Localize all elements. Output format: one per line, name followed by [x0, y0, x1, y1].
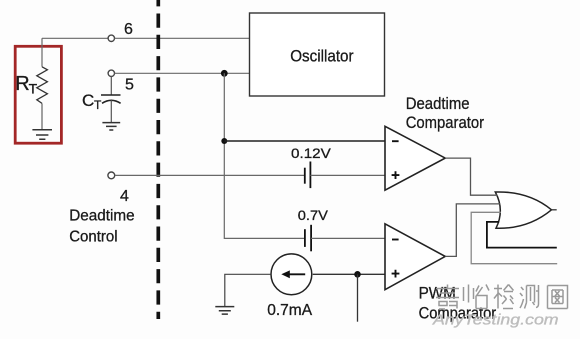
wire current source to PWM + input: [313, 273, 385, 275]
svg-text:0.12V: 0.12V: [291, 145, 332, 161]
svg-text:T: T: [29, 81, 38, 97]
current source arrow: [289, 273, 306, 275]
node junction at deadtime minus row: [221, 138, 227, 144]
wire PWM output to OR input 2: [445, 204, 500, 257]
highlight box (red) around RT: [15, 46, 61, 143]
ground under CT: [102, 123, 120, 130]
svg-text:Deadtime: Deadtime: [69, 208, 134, 225]
watermark (gray pseudo-characters): [436, 285, 568, 310]
plus sign: [392, 270, 400, 278]
op-amp deadtime comparator: [385, 126, 445, 190]
wire CT to ground: [110, 100, 112, 122]
terminal 5: [108, 70, 114, 76]
svg-text:0.7V: 0.7V: [298, 207, 329, 223]
wire 0.12V battery to deadtime + input: [310, 174, 385, 176]
current source 0.7mA circle: [271, 254, 312, 295]
wire stub going down (feedback): [357, 274, 359, 321]
minus sign: [392, 239, 399, 241]
svg-text:C: C: [82, 91, 94, 110]
op-amp PWM comparator: [385, 224, 445, 290]
svg-text:T: T: [94, 98, 102, 112]
wire node to deadtime - input: [224, 140, 385, 142]
wire pin5 down to CT: [110, 77, 112, 96]
svg-text:Deadtime: Deadtime: [406, 94, 470, 113]
svg-text:0.7mA: 0.7mA: [267, 302, 312, 319]
svg-text:5: 5: [125, 77, 134, 94]
battery 0.12V: [304, 168, 306, 184]
svg-text:Control: Control: [69, 229, 117, 246]
svg-text:AnyTesting.com: AnyTesting.com: [432, 312, 559, 329]
terminal 6: [108, 35, 114, 41]
battery 0.7V: [304, 229, 306, 247]
wire feedback D to OR input 4: [487, 222, 557, 248]
ground under RT: [32, 130, 52, 140]
wire current source to ground: [225, 274, 271, 306]
svg-text:Comparator: Comparator: [406, 113, 485, 132]
wire from RT to pin 6: [42, 38, 108, 67]
node junction on pin5 wire: [221, 70, 228, 77]
oscillator box: [250, 13, 385, 96]
svg-text:R: R: [15, 73, 29, 95]
svg-text:4: 4: [120, 188, 129, 205]
wire pin4 to 0.12V battery: [115, 174, 305, 176]
wire 0.7V battery to PWM - input: [311, 237, 385, 239]
terminal 4: [108, 172, 115, 179]
dashed boundary line: [156, 0, 160, 319]
char 5 wang: [548, 286, 568, 309]
wire pin5 to oscillator: [115, 72, 250, 74]
char 3 jian: [494, 285, 514, 309]
svg-text:6: 6: [124, 21, 133, 38]
plus sign: [392, 171, 400, 179]
minus sign: [392, 140, 399, 142]
wire resistor to ground: [41, 103, 43, 129]
svg-text:Oscillator: Oscillator: [290, 46, 354, 65]
wire OR output: [552, 209, 557, 211]
char 4 ce: [520, 285, 539, 309]
wire vertical bus from pin5 node down to 0.7V row: [224, 73, 305, 238]
wire feedback C to OR input 3: [471, 212, 557, 263]
node junction on PWM + wire: [354, 271, 361, 278]
char 2 yu: [464, 285, 490, 309]
capacitor CT: [101, 94, 121, 96]
wire deadtime output to OR input 1: [445, 158, 497, 195]
ground at current source: [215, 307, 234, 315]
wire pin6 to oscillator: [115, 37, 250, 39]
char 1 jia: [436, 285, 459, 310]
OR gate: [495, 192, 551, 228]
resistor RT: [37, 67, 48, 104]
